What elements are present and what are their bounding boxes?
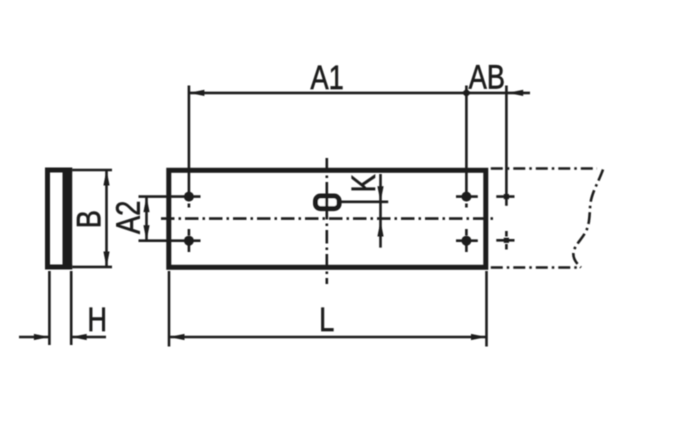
dimension B line — [105, 170, 108, 267]
horizontal centerline — [161, 217, 493, 220]
phantom hole cross bottom — [496, 231, 514, 250]
label A1 — [311, 66, 343, 89]
dimension A1/AB shared diamond — [462, 89, 472, 98]
main plate outline — [169, 170, 486, 267]
hole top-left — [184, 192, 194, 208]
phantom continuation bottom line — [491, 266, 579, 269]
label A2 — [116, 202, 140, 234]
hole top-right — [456, 192, 478, 208]
dimension H arrow right — [34, 334, 50, 340]
dimension B arrow up — [103, 170, 109, 186]
phantom hole cross top — [496, 194, 514, 199]
dimension A2 extension lines — [139, 195, 201, 198]
dimension A1 arrow left — [189, 90, 205, 96]
dimension L arrow left — [169, 334, 185, 340]
dimension A1 extension line left — [188, 86, 191, 197]
dimension K line — [379, 174, 382, 248]
dimension AB line — [466, 92, 530, 95]
dimension A2 arrow down — [143, 225, 149, 241]
dimension L line — [169, 336, 487, 339]
dimension AB extension line — [505, 86, 508, 206]
hole bottom-right — [456, 229, 478, 252]
label H — [90, 308, 105, 331]
dimension K arrow down — [377, 186, 383, 202]
dimension H line — [19, 336, 49, 339]
dimension B extension lines — [72, 169, 112, 172]
label B — [77, 212, 100, 226]
dimension H arrow left — [71, 334, 87, 340]
side view plate section — [45, 168, 72, 270]
label L — [321, 308, 333, 331]
phantom continuation top line — [491, 167, 597, 170]
dimension A1 extension line right — [465, 86, 468, 197]
dimension A2 arrow up — [143, 197, 149, 213]
centerline dash across slot — [325, 195, 328, 211]
dimension K extension line — [327, 201, 388, 204]
dimension H extension lines — [48, 271, 51, 345]
label AB — [469, 65, 504, 88]
slot hole — [316, 196, 340, 209]
dimension A1 line — [189, 92, 467, 95]
dimension L arrow right — [471, 334, 487, 340]
dimension L extension lines — [168, 271, 171, 347]
label K — [352, 174, 375, 190]
vertical slot centerline — [325, 158, 328, 284]
hole bottom-left — [184, 229, 194, 252]
dimension B arrow down — [103, 252, 109, 268]
dimension K arrow up — [377, 221, 383, 237]
dimension AB arrow — [508, 90, 524, 96]
dimension A2 line — [145, 197, 148, 241]
break curve — [573, 170, 603, 268]
